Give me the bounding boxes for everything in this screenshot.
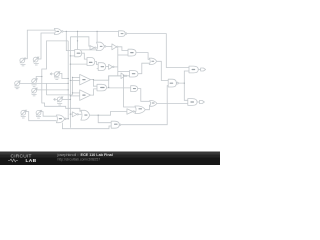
gate NAND N <box>168 79 176 87</box>
wire V7b long bottom line to NAND V input B <box>26 112 57 121</box>
source V4 with arrow terminal <box>54 97 63 105</box>
label U5 <box>82 79 85 80</box>
label H1 <box>192 69 196 70</box>
source V5 <box>15 81 20 89</box>
wire bus vertical x72.5 <box>72 77 74 95</box>
wire branch x77.5 to inverter A input <box>78 31 97 50</box>
wire AND U4 out to AND E input <box>82 53 87 59</box>
inverter C <box>112 44 117 50</box>
gate OR B <box>97 42 105 50</box>
wire op-amp U6 out to NAND W input B <box>91 89 97 95</box>
wire OR J out down to NAND N input A <box>157 61 169 80</box>
label U14 <box>139 108 143 109</box>
wire NOR U1 output long line <box>63 30 119 32</box>
wire V7 to bus <box>37 89 69 91</box>
wire NAND V out up to NAND N input B <box>121 86 168 125</box>
gate OR J <box>149 58 157 64</box>
wire op-amp U5 out to inverter L input <box>93 76 120 80</box>
wire long bottom line to NAND V input B <box>62 123 111 129</box>
footer bar <box>0 152 220 166</box>
gate NAND M <box>130 71 139 78</box>
wire inverter T out to OR U <box>78 113 81 115</box>
wire AND F input B stub <box>97 68 99 70</box>
svg-text:josephknoll :: ECE 110 Lab Fin: josephknoll :: ECE 110 Lab Final <box>57 153 113 157</box>
label U9 <box>132 73 136 74</box>
wire inverter A out to OR B input <box>95 47 98 49</box>
label U7 <box>130 52 133 53</box>
wire gate S out to inverter T <box>70 113 72 115</box>
wire OR Q out to OR P input B <box>145 105 150 110</box>
label B <box>100 46 103 47</box>
wire op-amp U6 input + <box>73 92 80 94</box>
wire inverter C out to NAND K input B <box>118 47 128 51</box>
wire bus vertical x70 <box>69 37 71 128</box>
label U8 <box>151 61 154 62</box>
label H2 <box>190 101 194 102</box>
svg-text:http://circuitlab.com/c6tt8257: http://circuitlab.com/c6tt8257 <box>58 158 101 162</box>
gate OR Q <box>135 106 145 114</box>
label U2 <box>121 33 124 34</box>
gate AND F <box>98 63 106 71</box>
wire S1 to NOR U1 input A <box>25 30 55 59</box>
wire OR B out to inverter C <box>106 45 112 47</box>
wire bus to AND E input B <box>70 63 87 65</box>
label U1 <box>56 31 59 32</box>
inverter L <box>121 73 125 79</box>
wire NAND K out to OR J input A <box>136 53 149 60</box>
gate AND H1 <box>189 66 198 73</box>
wire bus vertical x117.8 <box>117 48 119 76</box>
wire inverter R input <box>98 112 127 116</box>
gate XOR S <box>56 115 64 123</box>
inverter R <box>127 109 133 114</box>
wire NAND W out to AND O <box>106 87 131 89</box>
source V7 <box>32 88 37 96</box>
gate reference labels <box>56 31 195 125</box>
wire V3 to bus <box>59 73 68 78</box>
inverter I2 <box>109 64 113 69</box>
sources <box>15 57 63 118</box>
wire S2 to NOR U1 input B <box>38 33 55 59</box>
wire op-amp U6 input - <box>70 95 79 97</box>
wire op-amp U5 input - <box>70 79 79 81</box>
wire AND E out to AND F input <box>95 62 98 65</box>
wire op-amp U5 out to NAND W input A <box>93 80 97 87</box>
wire NAND N out to AND H1 input B <box>178 71 189 83</box>
wire bus to inverter L input <box>109 76 121 88</box>
wire bus to AND U4 input B <box>70 55 74 57</box>
gate OR U <box>81 110 90 120</box>
wire V8 to gate S input B <box>41 112 57 117</box>
wire OR U out to NAND V input A <box>90 115 112 123</box>
label U4 <box>77 53 81 54</box>
gate NAND W <box>97 84 107 91</box>
label K label <box>101 66 105 67</box>
source V6 <box>32 79 37 87</box>
wire bus to NAND M input A <box>118 71 130 73</box>
svg-text:LAB: LAB <box>26 158 37 164</box>
source V7b <box>21 110 26 118</box>
label U10 <box>170 83 174 84</box>
output flag H1 <box>198 68 205 71</box>
wire box loop left <box>45 83 47 95</box>
gate AND O <box>131 86 138 92</box>
gate NAND K <box>128 49 136 56</box>
label U17 <box>114 124 118 125</box>
op-amp U5 <box>80 74 91 85</box>
source S2 <box>33 57 39 65</box>
gate NOR U1 <box>54 29 61 35</box>
gate AND E <box>87 58 95 66</box>
label U12 <box>100 87 104 88</box>
gate AND U4 <box>75 50 82 57</box>
wire gate S output to bus <box>66 118 68 120</box>
wire OR P out to AND H2 input B <box>157 102 188 104</box>
output flag H2 <box>197 101 204 104</box>
wire box loop bottom <box>46 94 72 96</box>
source V8 <box>36 110 41 118</box>
wire op-amp U5 input + <box>73 76 80 78</box>
source S1 <box>20 58 26 66</box>
label U15 <box>59 118 62 119</box>
source V3 with arrow terminal <box>50 72 60 80</box>
wire inverter I2 out to bus x117.8 <box>114 66 118 68</box>
label U13 <box>152 103 155 104</box>
label U6 <box>82 95 85 96</box>
wire NAND N out down to AND H2 input A <box>184 83 188 100</box>
op-amp U6 <box>80 90 91 101</box>
wire inverter L out to NAND M input B <box>127 74 130 76</box>
gate OR P <box>150 101 157 107</box>
junction dots <box>41 31 185 120</box>
wire AND F out to inverter I2 <box>106 66 109 68</box>
wire NAND M out to OR J input B <box>138 63 149 73</box>
wire branch x66.7 to AND U4 input A <box>66 31 74 50</box>
wire NAND G2 output long to AND H1 <box>127 34 189 68</box>
wire V6 up staircase to bus <box>36 41 68 79</box>
label U3 <box>89 62 93 63</box>
wire branch x95.5 to OR B input <box>96 31 99 43</box>
wire AND O out to OR P input A <box>138 89 150 102</box>
wire vertical x123.5 to OR Q input A <box>124 76 135 107</box>
gate NAND G2 <box>119 31 126 37</box>
inverter A <box>90 46 95 50</box>
gate AND H2 <box>188 99 197 106</box>
inverter T <box>72 112 77 117</box>
gate NAND V <box>111 121 119 128</box>
label U16 <box>84 115 87 116</box>
wire bus vertical x67.5 <box>67 41 69 119</box>
wire inverter R out to OR Q input B <box>134 111 137 113</box>
wire bus to NAND K input A <box>118 54 128 56</box>
wire V4 to bus <box>62 98 70 100</box>
wire y36.8 to inverter A <box>70 37 90 46</box>
wire box loop top <box>46 82 68 84</box>
wire V5 to box <box>20 82 47 84</box>
wire op-amp U5 output <box>91 79 94 82</box>
wire x41.8 down to XOR S input <box>42 77 81 112</box>
label U11 <box>133 88 136 89</box>
